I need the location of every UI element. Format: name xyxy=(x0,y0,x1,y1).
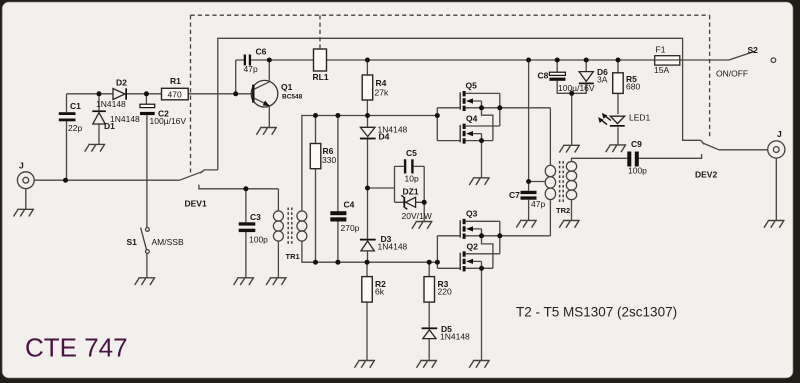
node D1/D2 anode xyxy=(97,91,102,96)
wire: TR1 primary stems xyxy=(277,189,279,278)
resistor R6 xyxy=(310,144,336,169)
wire: Q5 drain node across to TR2 primary top xyxy=(549,108,551,166)
svg-text:680: 680 xyxy=(626,82,640,92)
capacitor C6 xyxy=(236,47,267,94)
switch S1 xyxy=(141,228,150,254)
transistor Q4 xyxy=(460,114,500,144)
node D4 on upper bus xyxy=(365,113,370,118)
node Q2 source/ground xyxy=(479,266,484,271)
DEV2 upper contact tick xyxy=(701,140,704,144)
connector J (output) xyxy=(768,141,785,220)
wire: R1 to Q1 base xyxy=(188,93,252,95)
node gate bracket Q3/Q2 xyxy=(435,260,440,265)
ground below C3 xyxy=(234,278,255,285)
wire: Q3 source node across to TR2 primary bottom xyxy=(549,200,551,236)
node Q3 source/arrow xyxy=(479,233,484,238)
ground below J xyxy=(13,209,34,216)
wire: D4/D3 column xyxy=(367,116,369,263)
svg-text:1N4148: 1N4148 xyxy=(378,242,408,252)
node gate bracket Q5/Q4 xyxy=(435,113,440,118)
svg-text:S2: S2 xyxy=(748,45,759,55)
diode D2 xyxy=(96,78,127,110)
svg-text:TR1: TR1 xyxy=(286,252,300,261)
wire: Q3 drain drop to Q2 drain xyxy=(499,221,501,254)
transistor Q5 xyxy=(460,81,550,112)
svg-text:6k: 6k xyxy=(375,287,385,297)
node C3 tap xyxy=(243,186,248,191)
wire: R5/LED column xyxy=(617,60,619,145)
wire: R1 left node from C1 through D2/C2 xyxy=(67,93,162,95)
svg-text:Q4: Q4 xyxy=(466,114,478,124)
wire: C1 column xyxy=(66,94,68,180)
gate bracket wires Q5/Q4 xyxy=(437,108,460,141)
svg-text:S1: S1 xyxy=(127,237,138,247)
wire: Q5 drain drop to Q4 drain xyxy=(499,93,501,126)
node D2/C2/R1 xyxy=(144,91,149,96)
wire: D6 column xyxy=(572,60,587,93)
diode D3 xyxy=(360,234,408,252)
svg-text:C3: C3 xyxy=(250,212,261,222)
capacitor C7 xyxy=(509,190,545,209)
ground below Q1 xyxy=(256,128,277,135)
wire: R3/D5 column xyxy=(428,262,430,360)
svg-text:DEV2: DEV2 xyxy=(695,170,717,180)
svg-text:47p: 47p xyxy=(531,199,545,209)
svg-text:470: 470 xyxy=(168,90,182,100)
svg-text:C1: C1 xyxy=(70,101,81,111)
node C4 on upper bus xyxy=(335,113,340,118)
dashed stub to relay RL1 xyxy=(319,15,321,49)
wire: C7 column from +V rail xyxy=(528,60,530,220)
svg-text:20V/1W: 20V/1W xyxy=(402,211,432,221)
transistor Q3 xyxy=(460,209,550,239)
transistor Q1 xyxy=(251,60,302,127)
dashed box top edge xyxy=(191,14,710,16)
capacitor C3 xyxy=(239,212,268,245)
svg-text:220: 220 xyxy=(438,287,452,297)
svg-text:RL1: RL1 xyxy=(313,72,329,82)
wire: C9 to DEV2 lower contact xyxy=(639,154,702,158)
svg-text:270p: 270p xyxy=(341,223,360,233)
node Q5 source/arrow xyxy=(479,105,484,110)
ground below LED1 xyxy=(606,145,627,152)
node D6 on rail xyxy=(584,58,589,63)
node C4 on lower bus xyxy=(335,260,340,265)
svg-text:T2 - T5 MS1307 (2sc1307): T2 - T5 MS1307 (2sc1307) xyxy=(516,305,677,320)
svg-text:J: J xyxy=(19,161,24,171)
wire: Q2 source node to ground xyxy=(481,268,483,360)
capacitor C9 xyxy=(627,139,647,176)
svg-text:C9: C9 xyxy=(631,139,642,149)
wire: C8 column xyxy=(557,60,572,93)
wire: upper bus (gate bias) from TR1 secondary top xyxy=(302,116,437,212)
wire: TR2 secondary bottom to ground xyxy=(571,200,573,221)
node C7 on rail xyxy=(526,58,531,63)
relay coil RL1 xyxy=(313,49,329,82)
dashed box left edge (to DEV1) xyxy=(190,15,192,172)
transformer TR2 xyxy=(545,161,577,203)
ground below DZ1 xyxy=(412,222,433,229)
connector J (input) xyxy=(17,172,34,209)
svg-text:C6: C6 xyxy=(256,47,267,57)
node R6 on lower bus xyxy=(313,260,318,265)
wire: lower bus from TR1 secondary bottom xyxy=(302,241,438,262)
resistor R5 xyxy=(613,73,641,94)
capacitor C8 (electrolytic) xyxy=(538,71,595,94)
ground below D5 xyxy=(417,361,438,368)
wire: C2/S1 column xyxy=(145,94,148,278)
wire: J input line xyxy=(34,179,180,181)
fuse F1 xyxy=(654,45,680,76)
svg-text:27k: 27k xyxy=(375,88,389,98)
wire: C5/DZ1 right rail to ground xyxy=(414,166,425,221)
svg-text:22p: 22p xyxy=(68,123,82,133)
svg-text:CTE 747: CTE 747 xyxy=(25,333,128,363)
wire: branch to C5/DZ1 xyxy=(368,187,395,189)
resistor R1 xyxy=(162,76,189,100)
node D4/D3/C5 branch xyxy=(365,186,370,191)
wire: D1 column to ground xyxy=(98,94,100,145)
switch S2 ON/OFF xyxy=(729,51,776,62)
ground below C8/D6 xyxy=(559,145,580,152)
svg-text:100µ/16V: 100µ/16V xyxy=(558,83,595,93)
diode D5 xyxy=(422,324,470,342)
svg-text:1N4148: 1N4148 xyxy=(96,99,126,109)
DEV1 lower contact to tuned circuit xyxy=(199,185,279,189)
svg-text:TR2: TR2 xyxy=(556,206,570,215)
wire: R4 column xyxy=(366,60,368,116)
capacitor C5 xyxy=(404,148,419,184)
node Q4 source/ground xyxy=(479,138,484,143)
svg-text:Q3: Q3 xyxy=(466,209,478,219)
wire: TR2 centre tap to C7 node xyxy=(529,181,546,183)
node Q3 drain crossing xyxy=(497,233,502,238)
diode D4 xyxy=(360,125,408,142)
svg-text:100µ/16V: 100µ/16V xyxy=(150,116,187,126)
svg-text:Q2: Q2 xyxy=(467,242,479,252)
wire: R6 column xyxy=(315,116,317,263)
capacitor C4 xyxy=(330,200,359,234)
wire: R2 column xyxy=(366,262,368,360)
diode D6 xyxy=(579,67,608,85)
svg-text:330: 330 xyxy=(322,155,336,165)
svg-text:D4: D4 xyxy=(379,132,390,142)
svg-text:R4: R4 xyxy=(376,78,387,88)
resistor R4 xyxy=(362,75,389,100)
resistor R3 xyxy=(424,277,452,303)
ground below R2 xyxy=(355,361,376,368)
node TR2 centre tap xyxy=(526,179,531,184)
capacitor C2 (electrolytic) xyxy=(140,104,186,126)
svg-text:100p: 100p xyxy=(249,235,268,245)
wire: DEV1 upper contact to top line across to DEV2 xyxy=(218,38,701,170)
resistor R2 xyxy=(362,277,386,303)
DEV1 upper contact xyxy=(200,170,218,173)
wire: C8/D6 node to ground xyxy=(571,93,573,145)
node R6 on upper bus xyxy=(313,113,318,118)
DEV1 switch arm xyxy=(181,171,204,180)
ground below Q2 xyxy=(469,361,490,368)
node C8/D6 junction xyxy=(569,91,574,96)
node C6 tap on base wire xyxy=(233,91,238,96)
node R3 on lower bus xyxy=(427,260,432,265)
svg-text:LED1: LED1 xyxy=(629,113,651,123)
svg-text:D1: D1 xyxy=(104,121,115,131)
node R5 on rail xyxy=(616,58,621,63)
svg-text:ON/OFF: ON/OFF xyxy=(716,69,748,79)
node Q5 drain crossing xyxy=(497,105,502,110)
svg-text:C8: C8 xyxy=(538,71,549,81)
node R4 on rail xyxy=(365,58,370,63)
transformer TR1 xyxy=(273,208,307,246)
LED1 xyxy=(598,113,650,127)
svg-text:DZ1: DZ1 xyxy=(403,187,419,197)
dashed box right edge (to DEV2) xyxy=(709,15,711,138)
svg-text:Q1: Q1 xyxy=(281,82,293,92)
node C1 on input wire xyxy=(63,178,68,183)
svg-text:D2: D2 xyxy=(116,78,127,88)
wire: C5/DZ1 left rail xyxy=(395,166,404,202)
svg-text:J: J xyxy=(777,129,782,139)
DEV2 common to output jack xyxy=(719,149,768,151)
svg-text:10p: 10p xyxy=(405,174,419,184)
ground below TR2 secondary xyxy=(559,221,580,228)
node Q1 collector on rail xyxy=(267,58,272,63)
DEV2 switch arm xyxy=(703,143,719,150)
svg-text:1N4148: 1N4148 xyxy=(440,332,470,342)
wire: C3 column xyxy=(245,189,247,278)
wire: staircase Q3 source to Q2 source line xyxy=(482,236,493,268)
zener diode DZ1 xyxy=(401,187,431,222)
svg-text:Q5: Q5 xyxy=(466,81,478,91)
node D3/R2 on lower bus xyxy=(365,260,370,265)
gate bracket wires Q3/Q2 xyxy=(437,236,460,268)
diode D1 xyxy=(92,110,140,131)
ground below TR1 primary xyxy=(266,278,287,285)
svg-text:3A: 3A xyxy=(597,75,608,85)
svg-text:F1: F1 xyxy=(656,45,666,55)
wire: staircase Q5 source to Q4 source line xyxy=(482,108,493,141)
ground below D1 xyxy=(85,144,106,151)
node C8 on rail xyxy=(555,58,560,63)
wire: C4 column xyxy=(337,116,339,263)
svg-text:AM/SSB: AM/SSB xyxy=(152,237,184,247)
ground below output J xyxy=(764,221,785,228)
node DZ1 right xyxy=(422,200,427,205)
wire: TR2 secondary top to C9 xyxy=(572,158,628,161)
svg-text:DEV1: DEV1 xyxy=(185,199,207,209)
svg-text:100p: 100p xyxy=(628,166,647,176)
transistor Q2 xyxy=(460,242,500,272)
svg-text:BC548: BC548 xyxy=(282,94,303,101)
svg-text:47p: 47p xyxy=(244,64,258,74)
svg-text:15A: 15A xyxy=(654,65,669,75)
svg-text:C4: C4 xyxy=(344,200,355,210)
capacitor C1 xyxy=(59,101,83,133)
ground below S1 xyxy=(135,278,156,285)
svg-text:R1: R1 xyxy=(170,76,181,86)
wire: +V rail y=60 from C6 to fuse xyxy=(251,59,729,61)
ground below Q4 xyxy=(469,178,490,185)
wire: Q4 source node to ground xyxy=(481,141,483,178)
svg-text:C7: C7 xyxy=(509,190,520,200)
svg-text:C5: C5 xyxy=(406,148,417,158)
ground below C7 xyxy=(516,220,537,227)
